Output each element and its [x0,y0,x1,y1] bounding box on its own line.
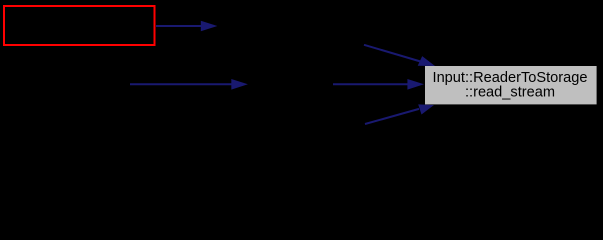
wire: edge E3 middle-left horizontal [130,83,232,85]
wire: edge E5 diagonal from below to gray node bottom-left [365,109,419,124]
node: red-bordered caller (truncated) [4,6,155,45]
wire: edge E1 from red node [156,25,202,27]
wire: edge E2 diagonal to gray node top-left [364,45,421,62]
arrowhead E1 [201,21,218,32]
arrowhead E4 [407,79,424,90]
wire: edge E4 into gray node left side [333,83,408,85]
arrowhead E3 [231,79,248,90]
svg-text:::read_stream: ::read_stream [465,84,555,100]
arrowhead E2 [418,56,435,66]
node: gray current-function box [425,66,597,104]
arrowhead E5 [418,104,434,114]
